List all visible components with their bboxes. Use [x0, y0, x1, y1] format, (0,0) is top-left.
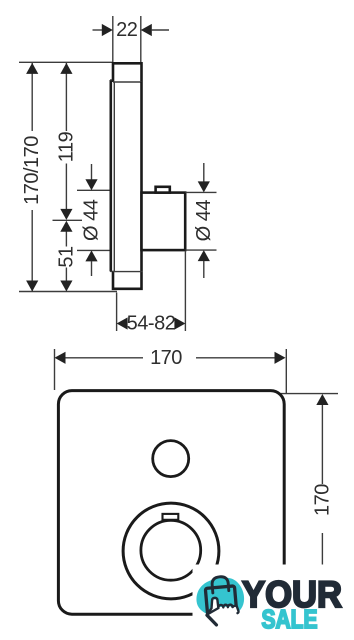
dim 22 left tail [93, 29, 103, 31]
extension line 22 left [112, 16, 114, 62]
dim front right 170 top arrow [316, 394, 328, 405]
svg-text:170: 170 [311, 484, 333, 516]
node 119/51 junction line [53, 219, 83, 221]
logo hand white fill [207, 600, 238, 624]
dim 119 bottom arrow [60, 209, 72, 220]
svg-text:170/170: 170/170 [21, 136, 43, 205]
dim diameter44 right top tail and arrow [203, 163, 205, 182]
svg-text:22: 22 [116, 19, 138, 41]
dim diameter44 left bottom arrow and tail [85, 250, 97, 261]
svg-text:Ø 44: Ø 44 [81, 199, 103, 241]
thermostat knob inner [141, 520, 201, 580]
logo shopping bag [205, 586, 236, 615]
logo bag handle [212, 576, 229, 593]
dim 22 right tail [151, 29, 169, 31]
faceplate front view [58, 391, 284, 615]
extension line diameter44 left bottom [77, 249, 110, 251]
thermostat knob tab [163, 514, 179, 520]
extension line bottom [19, 291, 117, 293]
cartridge tab [156, 187, 170, 193]
thermostat knob outer [123, 503, 219, 599]
wall flange top tick [110, 79, 114, 81]
logo teal blob [197, 577, 245, 617]
extension line diameter44 right top [185, 191, 216, 193]
dim front right 170 line [321, 405, 323, 485]
cartridge body [142, 193, 186, 251]
escutcheon body back seam [113, 82, 115, 272]
dim 119 top arrow [60, 63, 72, 74]
dim 22 left arrow [102, 24, 113, 36]
dim 119 line [65, 63, 67, 131]
svg-text:Ø 44: Ø 44 [193, 200, 215, 242]
svg-text:SALE: SALE [262, 604, 318, 634]
dim front 170 right arrow [275, 352, 286, 364]
dim 51 line [65, 232, 67, 247]
svg-text:119: 119 [55, 131, 77, 162]
dim front 170 line [65, 357, 143, 359]
dim 22 right arrow [141, 24, 152, 36]
dim 54-82 right arrow [174, 317, 185, 329]
extension line 54-82 right [184, 252, 186, 332]
extension line diameter44 left top [77, 189, 110, 191]
logo hand finger and knuckles [212, 598, 238, 613]
extension line 54-82 left [116, 293, 118, 332]
escutcheon bottom cap [113, 272, 142, 289]
wall flange bold edge [110, 80, 113, 271]
extension line diameter44 right bottom [185, 249, 216, 251]
logo white box [193, 565, 354, 640]
dim 51 bottom arrow [60, 281, 72, 292]
wall flange bottom tick [110, 270, 114, 272]
svg-text:54-82: 54-82 [127, 313, 176, 335]
extension line front top-right [285, 349, 287, 394]
dim 170/170 top arrow [26, 63, 38, 74]
dim 54-82 left arrow [117, 317, 128, 329]
select button [153, 441, 189, 477]
dim 170/170 bottom arrow [26, 281, 38, 292]
extension line 22 right [140, 16, 142, 62]
escutcheon top cap [113, 63, 142, 82]
logo hand thumb [207, 615, 216, 625]
svg-text:170: 170 [150, 347, 182, 369]
dim diameter44 right bottom arrow and tail [198, 250, 210, 261]
dim diameter44 left top tail and arrow [91, 164, 93, 180]
extension line front top-left [54, 349, 56, 390]
extension line front right [272, 393, 338, 395]
dim 51 top arrow [60, 221, 72, 232]
dim 170/170 line [31, 63, 33, 131]
dim front 170 left arrow [55, 352, 66, 364]
escutcheon body front edge [140, 82, 143, 272]
extension line top [19, 61, 113, 63]
svg-text:51: 51 [55, 246, 77, 268]
logo hand left edge and palm notch [207, 600, 218, 614]
